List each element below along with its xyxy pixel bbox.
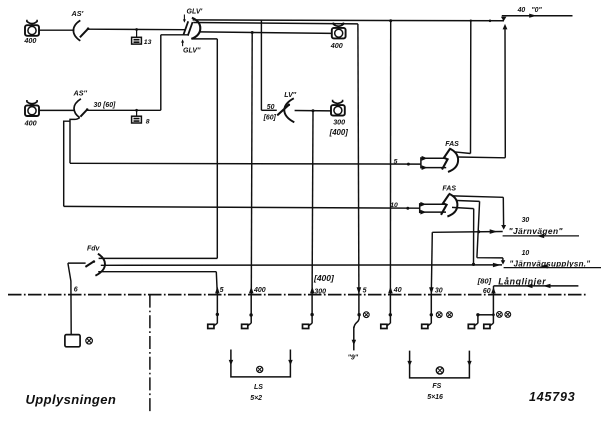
svg-text:Fdv: Fdv <box>87 245 101 252</box>
jack contact AS' <box>73 20 89 40</box>
wire GLV top pair line B to corner <box>193 23 358 24</box>
terminal 300 at bus <box>303 286 315 328</box>
wire FAS lower output 2 to Jarnvagsupplysn arrow <box>457 201 503 261</box>
svg-text:300: 300 <box>333 117 345 126</box>
svg-text:30: 30 <box>435 288 443 295</box>
wire LV to lamp 300 <box>295 110 332 112</box>
lamp 400 (top-left) <box>25 20 39 36</box>
wire vertical GLV'' down to Fdv <box>216 39 218 259</box>
svg-text:145793: 145793 <box>529 390 576 404</box>
arc GLV <box>191 18 200 39</box>
arrow into Jarnvagsupplysn node <box>493 263 501 268</box>
wire feed to FAS 5-line <box>70 162 421 165</box>
wire GLV bottom to corner <box>192 38 218 40</box>
svg-text:5: 5 <box>394 158 398 165</box>
wire AS' to GLV <box>88 28 185 31</box>
svg-text:5×16: 5×16 <box>427 394 443 401</box>
wire Fdv top output <box>99 257 218 259</box>
junction dot <box>312 109 315 112</box>
wire vertical from top pair down to LV <box>260 20 262 110</box>
svg-text:5×2: 5×2 <box>250 395 262 402</box>
wire AS'' step down (outer) <box>64 121 70 206</box>
svg-text:40: 40 <box>517 7 526 14</box>
wire AS'' step down (inner) <box>70 118 80 164</box>
wire lamp to AS' <box>39 29 74 31</box>
wire FAS upper output 1 up to main line <box>454 21 471 154</box>
wire lamp to AS'' <box>39 109 74 111</box>
resistor box 8 <box>132 109 142 123</box>
junction dot <box>251 31 254 34</box>
wire underline with left arrow <box>504 267 601 269</box>
label GLV' with down arrow <box>183 9 203 23</box>
svg-text:13: 13 <box>144 39 152 46</box>
svg-text:10: 10 <box>522 250 530 257</box>
svg-text:40: 40 <box>393 287 402 294</box>
wire GLV middle to lamp 400 <box>200 32 332 34</box>
svg-text:AS′: AS′ <box>71 9 84 18</box>
svg-text:30 [60]: 30 [60] <box>94 102 117 109</box>
wire vertical down to bus terminal 300 <box>311 111 314 295</box>
relay FAS (upper) lightning <box>442 149 450 170</box>
svg-text:30: 30 <box>522 217 530 224</box>
wire Langlinjer with left arrows <box>494 285 579 287</box>
terminal 60 [80] at bus <box>468 286 495 329</box>
terminal 5 (to 9) at bus <box>352 24 362 351</box>
svg-text:[400]: [400] <box>313 273 335 283</box>
lamp cross symbol <box>86 337 93 344</box>
svg-text:LS: LS <box>254 384 263 391</box>
box terminal (bottom left) <box>65 335 80 347</box>
svg-text:5: 5 <box>363 287 367 294</box>
svg-text:400: 400 <box>24 118 37 127</box>
wire Fdv input down to box <box>68 263 71 335</box>
svg-text:Långlinjer: Långlinjer <box>498 277 546 287</box>
wire Fdv middle output to Jarnvagsupplysn <box>101 264 502 266</box>
terminal 5 at bus <box>208 286 220 328</box>
lamp 400 (second row) <box>25 100 39 116</box>
relay FAS (upper) fork <box>421 156 446 170</box>
jack Fdv <box>68 254 105 276</box>
svg-text:60: 60 <box>483 288 491 295</box>
svg-text:FAS: FAS <box>445 141 459 148</box>
lamp 400 (top right) <box>332 23 346 39</box>
jack contact AS'' <box>74 99 88 118</box>
svg-text:Upplysningen: Upplysningen <box>26 392 117 407</box>
contact GLV (double slash) <box>183 21 192 35</box>
svg-text:300: 300 <box>314 288 326 295</box>
svg-text:[80]: [80] <box>477 277 492 286</box>
wire GLV top pair line A to right <box>193 19 504 22</box>
svg-text:"9": "9" <box>348 355 359 362</box>
wire underline with left arrow <box>503 235 579 237</box>
svg-text:400: 400 <box>253 287 266 294</box>
svg-text:10: 10 <box>390 202 398 209</box>
bracket LS 5x2 <box>229 350 293 377</box>
wire feed to FAS 10-line <box>64 206 420 208</box>
svg-text:GLV′: GLV′ <box>187 9 203 16</box>
lamp cross symbols <box>436 312 452 318</box>
bracket FS 5x16 <box>407 351 471 378</box>
svg-text:[400]: [400] <box>329 128 349 137</box>
wire Fdv bottom output to bus terminal 5 <box>98 272 217 295</box>
wire to LV contact <box>261 109 276 111</box>
terminal 400 at bus <box>242 33 254 329</box>
svg-text:5: 5 <box>220 287 224 294</box>
lamp 300 [400] <box>331 100 345 116</box>
svg-text:400: 400 <box>330 41 343 50</box>
wire AS'' output <box>87 109 161 111</box>
lamp cross symbols <box>497 312 511 318</box>
lamp cross symbol <box>363 312 369 318</box>
svg-text:FAS: FAS <box>442 186 456 193</box>
boundary line vertical (dash-dot) <box>149 295 151 412</box>
svg-text:AS″: AS″ <box>73 89 88 98</box>
resistor box 13 <box>132 28 142 44</box>
wire Jarnvagen line from terminal 30 <box>432 231 502 234</box>
label GLV'' with up arrow <box>181 39 201 54</box>
wire FAS lower output 3 down to Fdv line <box>452 207 474 264</box>
svg-text:6: 6 <box>74 287 78 294</box>
terminal 40 at bus <box>381 19 393 328</box>
jack contact LV'' <box>277 98 294 122</box>
relay FAS (upper) arc <box>448 148 458 172</box>
top right continuation arrow 40 "0" <box>489 14 573 23</box>
svg-text:"0": "0" <box>531 7 542 14</box>
svg-text:50: 50 <box>267 104 275 111</box>
terminal 30 at bus <box>422 232 434 328</box>
relay FAS (lower) arc <box>447 194 457 217</box>
svg-text:FS: FS <box>432 383 441 390</box>
svg-text:8: 8 <box>146 118 150 125</box>
wire corner up to GLV second pole <box>161 35 188 111</box>
wire FAS lower output 1 to Jarnvagen arrow <box>453 196 504 226</box>
svg-text:400: 400 <box>23 36 36 45</box>
svg-text:[60]: [60] <box>263 115 277 122</box>
relay FAS (lower) lightning <box>441 194 449 214</box>
svg-text:GLV″: GLV″ <box>183 48 201 55</box>
wire FAS upper output 2 up with arrow <box>457 29 505 158</box>
bus line (dash-dot) <box>8 294 587 296</box>
svg-text:"Järnvägen": "Järnvägen" <box>509 226 564 236</box>
relay FAS (lower) fork <box>420 202 446 215</box>
svg-text:LV″: LV″ <box>284 92 297 99</box>
